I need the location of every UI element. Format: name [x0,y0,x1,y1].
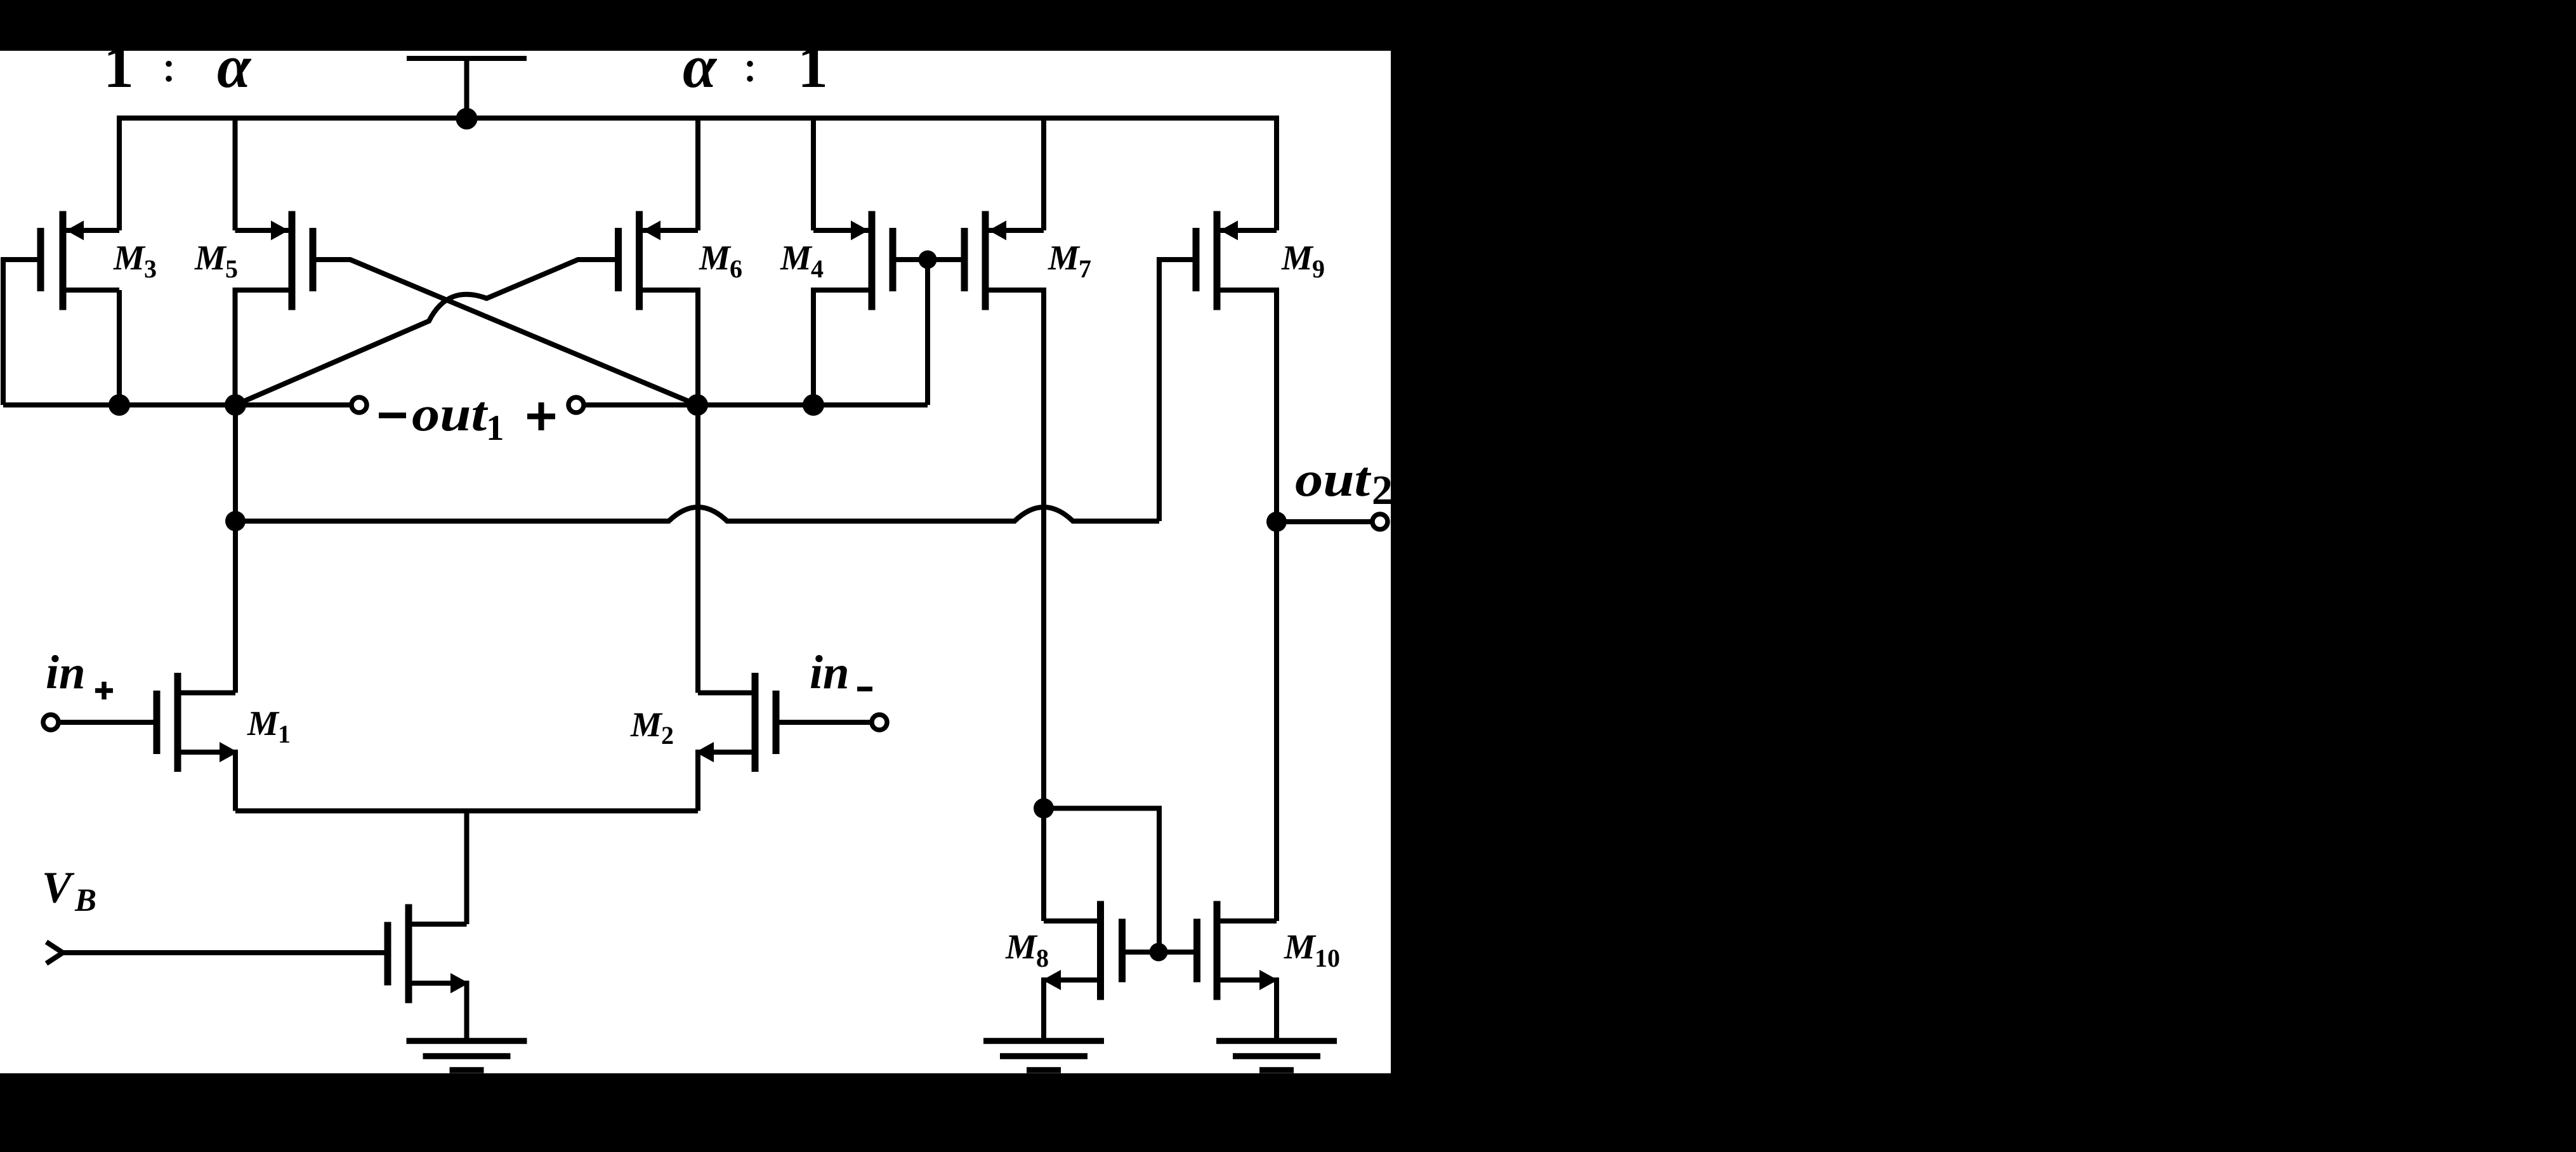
svg-text:9: 9 [1312,255,1325,283]
svg-text:in: in [810,647,850,699]
svg-text:M: M [194,239,227,277]
svg-text:1: 1 [486,408,504,448]
svg-text:5: 5 [225,255,238,283]
svg-text:M: M [1048,239,1081,277]
svg-text:M: M [1284,927,1317,966]
svg-text:M: M [780,239,813,277]
svg-text:8: 8 [1036,944,1049,972]
svg-text:3: 3 [144,255,157,283]
svg-text:M: M [1005,927,1038,966]
svg-text:1: 1 [278,720,291,748]
svg-text:in: in [46,647,86,699]
svg-text:out: out [412,387,489,442]
svg-text:10: 10 [1315,944,1340,972]
svg-text:out: out [1295,453,1372,507]
svg-text:M: M [113,239,146,277]
svg-text:2: 2 [1372,467,1393,513]
svg-text:M: M [699,239,732,277]
svg-text:B: B [74,883,96,918]
svg-text:6: 6 [730,255,742,283]
svg-text:M: M [247,704,280,743]
svg-text:2: 2 [661,721,674,750]
svg-text:7: 7 [1079,255,1091,283]
svg-text:4: 4 [811,255,824,283]
svg-text:M: M [630,705,663,744]
svg-text:M: M [1281,239,1314,277]
svg-text:V: V [42,864,75,913]
